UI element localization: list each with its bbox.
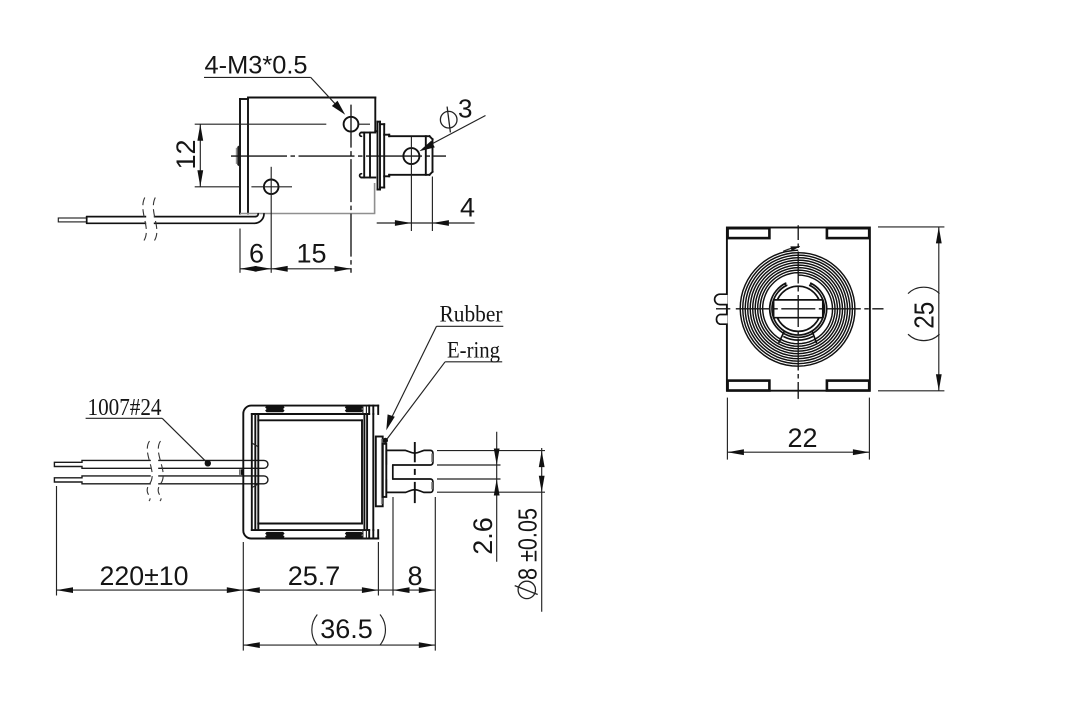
svg-text:25.7: 25.7 — [288, 561, 341, 591]
svg-text:12: 12 — [171, 139, 201, 169]
svg-text:8 ±0.05: 8 ±0.05 — [513, 508, 543, 580]
svg-text:15: 15 — [296, 239, 326, 269]
svg-text:36.5: 36.5 — [320, 614, 373, 644]
svg-text:E-ring: E-ring — [447, 338, 500, 363]
svg-text:220±10: 220±10 — [100, 561, 189, 591]
svg-text:6: 6 — [249, 239, 264, 269]
svg-text:2.6: 2.6 — [468, 517, 498, 555]
svg-text:22: 22 — [787, 423, 817, 453]
svg-text:25: 25 — [909, 302, 940, 329]
svg-text:1007#24: 1007#24 — [88, 395, 162, 421]
svg-text:8: 8 — [407, 561, 422, 591]
svg-text:Rubber: Rubber — [440, 302, 503, 327]
svg-text:4-M3*0.5: 4-M3*0.5 — [205, 52, 308, 80]
svg-text:4: 4 — [460, 193, 475, 223]
svg-text:3: 3 — [458, 93, 472, 123]
